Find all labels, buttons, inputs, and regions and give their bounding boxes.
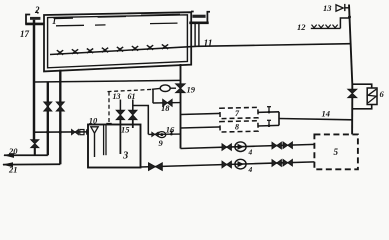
arrow 21 (2, 162, 13, 167)
svg-text:13: 13 (113, 92, 121, 101)
valve on pipe A (44, 102, 52, 111)
link to valve 19 (170, 87, 176, 89)
pump 9 valve (152, 132, 158, 136)
right launder bottom (189, 21, 208, 24)
valve 18 (163, 99, 172, 106)
valve pair on bottom line (272, 159, 292, 166)
svg-text:2: 2 (34, 5, 40, 15)
svg-text:12: 12 (297, 22, 306, 32)
launder 2 bottom (25, 23, 44, 26)
bracket joining lines 7 and 8 (278, 112, 280, 126)
svg-text:5: 5 (334, 147, 339, 157)
pipe 14 (279, 119, 352, 120)
water feed line to funnel 10 (34, 131, 87, 133)
solid link to flowmeter (152, 87, 160, 90)
standpipe from valve 19 line (152, 89, 154, 103)
apparatus 8 (dashed box) (220, 121, 258, 132)
flowmeter circle (160, 85, 170, 92)
valve 18 line (153, 102, 181, 104)
heat exchanger 6 branch bottom (352, 105, 371, 109)
valve on drain pipe (31, 140, 39, 148)
stem to valve 13a (119, 100, 121, 111)
small valve on water feed (72, 129, 79, 134)
valve on riser (bypass) (348, 89, 357, 98)
svg-text:21: 21 (8, 164, 18, 174)
fitting on water feed (80, 130, 84, 135)
svg-text:4: 4 (248, 165, 253, 174)
drain pipe B from tank bottom (59, 70, 61, 164)
sprinkler trough 12 (311, 25, 341, 29)
svg-text:20: 20 (8, 146, 18, 156)
pump 9 body (158, 132, 166, 138)
pump 4 top (235, 142, 246, 152)
valve 13a (116, 110, 124, 119)
left overflow launder 2 (26, 15, 44, 24)
valve pair on top line (272, 142, 292, 149)
right overflow launder (191, 12, 210, 22)
dip pipe pair in tank 3 (103, 125, 105, 156)
junction dot (46, 131, 49, 134)
top transfer line to apparatus 5 (181, 144, 315, 148)
diffuser x-marks (57, 44, 168, 54)
funnel 13 (336, 4, 349, 11)
valve after tank 3 (149, 163, 163, 171)
pump 4 bottom (235, 159, 246, 169)
dashed vertical to tank 3 (108, 92, 110, 124)
water surface dashes row 2 (56, 23, 178, 26)
vent tick on line 7 (267, 107, 271, 114)
pump 9 line (148, 133, 180, 135)
funnel 10 (91, 127, 98, 133)
dashed line end bar (106, 123, 111, 125)
drain pipe lower (34, 148, 36, 156)
tank 1 outer wall (44, 12, 191, 71)
stem to valve 61a (132, 100, 134, 111)
tick 16 (170, 131, 173, 135)
collector line below tank (33, 80, 180, 82)
dashed suction line to valve 19 (108, 89, 152, 91)
outlet line 20 (4, 154, 48, 156)
funnel 10 stem (94, 133, 96, 157)
right launder drain pipe (194, 24, 196, 46)
launder 2 weir bar (30, 17, 40, 20)
svg-text:61: 61 (128, 92, 136, 101)
apparatus 7 (dashed box) (220, 107, 258, 118)
svg-text:14: 14 (322, 109, 331, 119)
valve on bottom transfer line (mid) (222, 161, 231, 168)
svg-text:3: 3 (122, 151, 128, 162)
junction dot (59, 131, 62, 134)
arrow 20 (3, 153, 14, 158)
dip pipe from valve 13a (119, 120, 121, 154)
pipe to box 8 (181, 125, 280, 128)
stub into tank from valve 61a (132, 120, 134, 128)
svg-text:16: 16 (166, 124, 175, 134)
bottom transfer line from tank 3 (141, 162, 315, 167)
aeration header line 11 (50, 44, 351, 55)
water surface dashes row 1 (54, 15, 180, 19)
svg-text:17: 17 (20, 29, 30, 39)
svg-text:8: 8 (235, 123, 239, 132)
tank 3 (88, 125, 141, 168)
feed end tick (86, 129, 88, 134)
svg-text:13: 13 (323, 3, 332, 13)
vent tick on line 8 (267, 120, 271, 127)
branch from stem 61a to side pipe (133, 106, 149, 135)
drain pipe A from collector (47, 82, 49, 156)
valve on top transfer line (222, 144, 231, 151)
heat exchanger 6 body (367, 88, 377, 105)
main vertical pipe below tank 1 (180, 64, 182, 149)
svg-text:1: 1 (52, 16, 57, 26)
valve on pipe B (56, 102, 64, 111)
tank 1 inner wall (48, 15, 188, 68)
svg-text:18: 18 (161, 103, 170, 113)
svg-text:11: 11 (204, 39, 213, 49)
heat exchanger 6 coil (368, 89, 376, 103)
svg-text:10: 10 (89, 116, 98, 126)
trough 12 step to pipe (340, 18, 349, 28)
svg-text:15: 15 (121, 125, 130, 135)
svg-text:4: 4 (248, 148, 253, 157)
valve 19 (176, 84, 186, 93)
heat exchanger 6 branch top (352, 84, 371, 88)
main right riser pipe (349, 5, 352, 90)
junction dot at trough connection (348, 16, 351, 19)
apparatus 5 (dashed box) (314, 134, 358, 169)
launder 2 drain pipe (33, 20, 35, 140)
pipe to box 7 (181, 112, 280, 115)
outlet line 21 (3, 163, 60, 165)
right launder weir bar (192, 15, 205, 18)
valve 61a (129, 110, 137, 119)
svg-text:19: 19 (187, 85, 196, 95)
